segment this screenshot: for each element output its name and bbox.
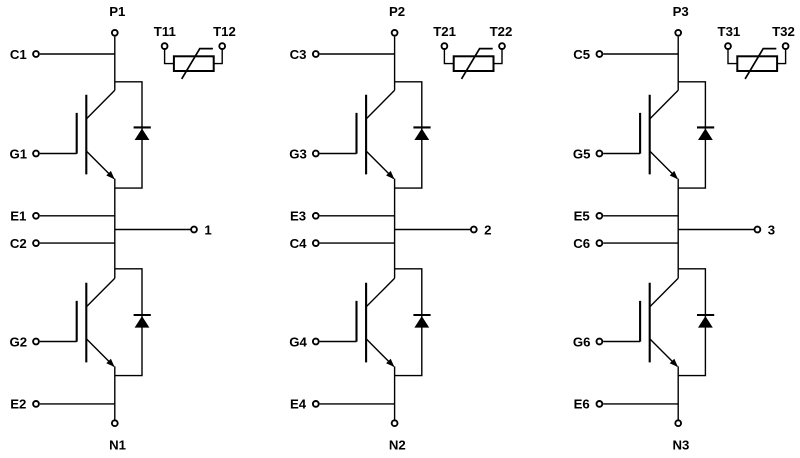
svg-text:C3: C3 <box>290 47 307 62</box>
svg-text:P2: P2 <box>389 4 405 19</box>
svg-text:T31: T31 <box>718 24 741 39</box>
svg-text:N1: N1 <box>109 437 126 452</box>
svg-text:G3: G3 <box>289 146 307 161</box>
svg-text:G6: G6 <box>573 334 591 349</box>
svg-text:E3: E3 <box>290 209 306 224</box>
svg-text:2: 2 <box>484 222 491 237</box>
svg-text:G2: G2 <box>10 334 28 349</box>
svg-text:T21: T21 <box>433 24 456 39</box>
svg-text:C1: C1 <box>10 47 27 62</box>
svg-text:T22: T22 <box>490 24 513 39</box>
svg-text:T32: T32 <box>772 24 795 39</box>
svg-text:E6: E6 <box>574 397 590 412</box>
svg-text:E4: E4 <box>290 397 307 412</box>
svg-text:C5: C5 <box>573 47 590 62</box>
svg-text:T11: T11 <box>154 24 176 39</box>
svg-text:G4: G4 <box>289 334 307 349</box>
svg-text:T12: T12 <box>213 24 236 39</box>
svg-text:C4: C4 <box>290 236 308 251</box>
svg-text:C6: C6 <box>573 236 590 251</box>
svg-text:C2: C2 <box>10 236 27 251</box>
svg-text:G5: G5 <box>573 146 591 161</box>
svg-text:P1: P1 <box>109 4 125 19</box>
svg-text:G1: G1 <box>10 146 28 161</box>
svg-text:E2: E2 <box>10 397 26 412</box>
svg-text:3: 3 <box>768 222 775 237</box>
svg-text:P3: P3 <box>673 4 689 19</box>
svg-text:N2: N2 <box>389 437 406 452</box>
svg-text:N3: N3 <box>672 437 689 452</box>
svg-text:1: 1 <box>204 222 211 237</box>
svg-text:E5: E5 <box>574 209 590 224</box>
svg-text:E1: E1 <box>10 209 26 224</box>
